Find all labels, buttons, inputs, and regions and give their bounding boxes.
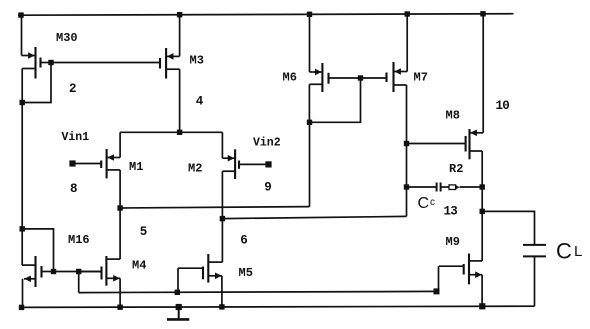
- capacitor Cc plates: [436, 183, 438, 192]
- wire: M5 source to VSS rail: [221, 276, 223, 307]
- resistor R2 (node 13 branch): [449, 185, 456, 190]
- wire: M8 drain down to output: [481, 151, 483, 261]
- transistor M8: drain/source lead (bottom): [470, 150, 483, 152]
- input terminal Vin1 (node 8): [69, 160, 75, 166]
- transistor M2: channel: [234, 149, 236, 179]
- junction: VSS / M9: [479, 303, 485, 309]
- svg-text:R2: R2: [449, 162, 463, 176]
- transistor M8: gate lead: [407, 143, 466, 145]
- transistor M30: drain/source lead (top): [22, 55, 36, 57]
- transistor M6: drain/source lead (top): [310, 71, 323, 73]
- svg-text:M5: M5: [239, 266, 253, 280]
- wire: Cc branch from node 6 column: [407, 186, 437, 188]
- transistor M16: NMOS arrow: [24, 276, 31, 283]
- wire: node 2 bias line M30 gate to M3 gate: [51, 62, 160, 64]
- junction: VDD / M7: [405, 11, 410, 16]
- transistor M30: drain/source lead (bottom): [22, 68, 35, 70]
- transistor M3: drain/source lead (bottom): [166, 68, 180, 70]
- transistor M5: NMOS arrow: [215, 273, 222, 280]
- wire: node 4 down to M1 source: [119, 132, 121, 157]
- wire: node 6 line to second stage: [222, 216, 406, 218]
- junction: left column / M16 bias: [20, 226, 25, 231]
- transistor M7: drain/source lead (bottom): [394, 84, 407, 86]
- transistor M4: drain/source lead (bottom): [106, 277, 120, 279]
- svg-text:4: 4: [196, 94, 204, 108]
- wire: R2 to output node: [460, 186, 483, 188]
- transistor M3: PMOS arrow: [167, 53, 174, 60]
- svg-text:M16: M16: [68, 233, 90, 247]
- svg-text:13: 13: [444, 204, 458, 218]
- transistor M7: gate lead: [361, 77, 387, 79]
- transistor M1: drain/source lead (top): [107, 157, 121, 159]
- svg-text:M9: M9: [446, 235, 460, 249]
- wire: M1 drain / M4 drain column (node 5): [119, 170, 121, 259]
- transistor M1: channel: [106, 149, 108, 178]
- svg-text:M6: M6: [283, 71, 297, 85]
- transistor M8: channel: [468, 129, 470, 159]
- transistor M8: gate bar: [465, 136, 467, 152]
- wire: VDD node 10 column to M8 source: [482, 14, 484, 133]
- wire: VDD to M30 source: [21, 15, 23, 55]
- junction: VDD / M6: [307, 12, 312, 17]
- junction: node 6: [220, 216, 225, 221]
- junction: node 4 / M3 drain: [177, 130, 182, 135]
- svg-text:2: 2: [69, 82, 77, 96]
- transistor M2: gate bar: [238, 161, 240, 169]
- wire: M30 drain down left column to M16 drain: [21, 69, 23, 266]
- junction: M16 gate: [51, 269, 56, 274]
- transistor M30: channel: [34, 47, 36, 79]
- wire: node 5 up to M6 drain junction: [309, 122, 311, 206]
- junction: VDD / node 10: [480, 11, 485, 16]
- transistor M5: gate bar: [202, 267, 204, 280]
- node 4: tail line of differential pair: [120, 131, 222, 133]
- transistor M8: PMOS arrow: [470, 130, 477, 137]
- transistor M6: channel: [321, 63, 323, 92]
- node 2: M30 gate junction: [48, 60, 53, 65]
- junction: M5 gate tap: [175, 290, 180, 295]
- transistor M5: channel: [207, 254, 209, 283]
- wire: M5 gate drop: [177, 268, 179, 292]
- svg-text:Vin1: Vin1: [62, 131, 90, 144]
- transistor M6: gate lead: [329, 77, 361, 79]
- wire: Cc to R2: [441, 186, 449, 188]
- junction: VDD / M3: [177, 12, 182, 17]
- transistor M16: drain/source lead (top): [22, 264, 36, 266]
- wire: M7 drain down to Cc tap: [406, 85, 408, 187]
- junction: R2 / output column: [480, 184, 485, 189]
- wire: M16 bias tap (left column to gate): [22, 229, 53, 272]
- transistor M4: channel: [105, 256, 107, 286]
- transistor M6: drain/source lead (bottom): [309, 83, 322, 85]
- transistor M3: drain/source lead (top): [166, 55, 180, 57]
- transistor M30: gate bar: [39, 58, 41, 68]
- wire: bias drop to line A: [78, 272, 80, 293]
- transistor M1: gate bar: [100, 161, 102, 169]
- junction: VSS / M4: [117, 305, 122, 310]
- transistor M9: drain/source lead (bottom): [469, 274, 482, 276]
- svg-text:L: L: [574, 243, 582, 260]
- transistor M4: NMOS arrow: [113, 275, 120, 282]
- transistor M8: drain/source lead (top): [470, 132, 484, 134]
- transistor M2: drain/source lead (top): [222, 157, 235, 159]
- wire: M3 drain to node 4: [179, 69, 181, 132]
- transistor M2: drain/source lead (bottom): [222, 170, 235, 172]
- wire: M6 diode connection: [310, 78, 361, 122]
- wire: gate line M16 to M4: [54, 271, 102, 273]
- svg-text:Vin2: Vin2: [253, 137, 281, 150]
- wire: M9 source to VSS rail: [481, 275, 483, 307]
- svg-text:C: C: [418, 195, 430, 212]
- transistor M7: gate bar: [385, 73, 387, 83]
- transistor M1: drain/source lead (bottom): [107, 169, 121, 171]
- junction: M7 drain / M8 gate: [404, 141, 409, 146]
- svg-text:C: C: [556, 239, 572, 264]
- transistor M2: PMOS arrow: [228, 155, 235, 162]
- transistor M1: PMOS arrow: [107, 154, 114, 161]
- transistor M9: gate lead: [439, 265, 464, 267]
- junction: M30 drain / diode loop: [20, 100, 25, 105]
- ground symbol: [176, 304, 182, 310]
- junction: VSS / M5: [219, 304, 224, 309]
- transistor M5: drain/source lead (bottom): [208, 275, 222, 277]
- transistor M3: gate lead: [159, 62, 161, 64]
- transistor M5: drain/source lead (top): [208, 261, 222, 263]
- junction: M4 gate / bias line A: [76, 269, 81, 274]
- svg-text:M3: M3: [190, 54, 204, 68]
- svg-text:M1: M1: [129, 160, 143, 174]
- wire: bias line A (M4/M5/M9 gates): [79, 291, 439, 292]
- svg-text:M8: M8: [446, 109, 460, 123]
- transistor M30: gate lead: [41, 62, 52, 64]
- wire: M16 source to VSS rail: [22, 279, 24, 308]
- VDD top rail: [18, 14, 514, 16]
- transistor M9: channel: [468, 254, 470, 285]
- transistor M1: gate lead: [76, 163, 102, 165]
- wire: M4 source to VSS rail: [119, 278, 121, 307]
- transistor M5: gate lead: [178, 267, 203, 269]
- junction: M9 gate corner: [434, 288, 440, 294]
- transistor M3: channel: [165, 48, 167, 79]
- transistor M6: gate bar: [327, 73, 329, 84]
- transistor M2: gate lead: [239, 163, 266, 165]
- wire: node 4 down to M2 source: [221, 132, 223, 158]
- transistor M16: gate lead: [42, 271, 54, 273]
- input terminal Vin2 (node 9): [265, 161, 271, 167]
- transistor M16: drain/source lead (bottom): [24, 278, 36, 280]
- transistor M7: PMOS arrow: [394, 68, 401, 75]
- transistor M16: channel: [34, 256, 36, 287]
- wire: VDD to M7 source: [406, 14, 408, 72]
- transistor M7: drain/source lead (top): [394, 71, 408, 73]
- junction: node 5: [117, 205, 122, 210]
- svg-text:c: c: [430, 197, 435, 208]
- svg-text:5: 5: [140, 225, 148, 239]
- transistor M7: channel: [392, 62, 394, 92]
- transistor M4: drain/source lead (top): [106, 258, 120, 260]
- junction: Cc tap: [404, 184, 409, 189]
- wire: VDD to M3 source: [179, 15, 181, 57]
- svg-text:10: 10: [496, 99, 510, 113]
- transistor M9: drain/source lead (top): [469, 260, 482, 262]
- transistor M9: NMOS arrow: [475, 271, 482, 278]
- svg-text:M30: M30: [56, 31, 78, 45]
- svg-text:6: 6: [240, 234, 248, 248]
- wire: output to CL: [482, 211, 534, 245]
- wire: node 5 line to M6 drain: [120, 207, 309, 208]
- wire: CL bottom to ground rail: [534, 256, 536, 306]
- wire: M9 gate drop: [438, 266, 440, 291]
- wire: M2 drain / M5 drain column (node 6): [221, 171, 223, 262]
- svg-text:8: 8: [70, 182, 78, 196]
- svg-text:M7: M7: [414, 71, 428, 85]
- transistor M16: gate bar: [40, 266, 42, 278]
- transistor M9: gate bar: [463, 264, 465, 275]
- transistor M4: gate lead: [79, 271, 102, 273]
- junction: M6 gate / M7 gate: [358, 75, 363, 80]
- VSS bottom rail: [22, 306, 535, 307]
- wire: node 6 up to M7 drain / M8 gate column: [406, 187, 408, 217]
- wire: M30 gate diode connection: [22, 63, 51, 103]
- transistor M4: gate bar: [100, 267, 102, 280]
- junction: output node / CL tap: [480, 209, 485, 214]
- svg-text:M4: M4: [132, 259, 146, 273]
- wire: VDD to M6 source: [309, 14, 311, 72]
- svg-text:9: 9: [264, 181, 272, 195]
- junction: VSS / M16: [19, 305, 24, 310]
- junction: VDD / M30: [18, 12, 23, 17]
- transistor M3: gate bar: [159, 58, 161, 69]
- svg-text:M2: M2: [188, 162, 202, 176]
- wire: M6 drain down: [308, 84, 310, 122]
- transistor M6: PMOS arrow: [315, 69, 322, 76]
- junction: M6 drain / node 5: [307, 120, 312, 125]
- transistor M30: PMOS arrow: [28, 52, 35, 59]
- capacitor CL plates: [523, 244, 546, 246]
